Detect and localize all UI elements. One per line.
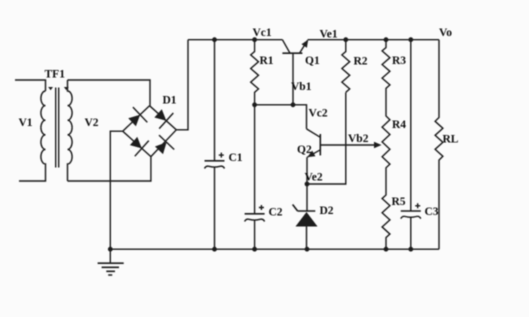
svg-text:Vc1: Vc1 (253, 27, 272, 39)
svg-text:C2: C2 (269, 207, 283, 219)
svg-text:Q2: Q2 (297, 144, 312, 156)
svg-text:C1: C1 (229, 152, 243, 164)
svg-text:R3: R3 (392, 55, 406, 67)
svg-text:V2: V2 (85, 117, 99, 129)
svg-text:Vb1: Vb1 (291, 81, 312, 93)
svg-text:V1: V1 (19, 117, 33, 129)
svg-text:R5: R5 (392, 196, 406, 208)
svg-text:D2: D2 (320, 205, 334, 217)
svg-text:Vo: Vo (439, 27, 452, 39)
svg-text:TF1: TF1 (45, 69, 66, 81)
svg-text:Vc2: Vc2 (309, 108, 328, 120)
svg-text:C3: C3 (425, 206, 439, 218)
svg-text:Ve1: Ve1 (320, 29, 338, 41)
svg-text:D1: D1 (163, 95, 177, 107)
svg-text:R1: R1 (260, 55, 274, 67)
svg-text:Vb2: Vb2 (348, 133, 369, 145)
svg-text:R2: R2 (354, 56, 368, 68)
svg-text:R4: R4 (392, 119, 406, 131)
svg-text:Ve2: Ve2 (305, 172, 323, 184)
svg-text:Q1: Q1 (305, 55, 320, 67)
svg-text:RL: RL (443, 134, 459, 146)
